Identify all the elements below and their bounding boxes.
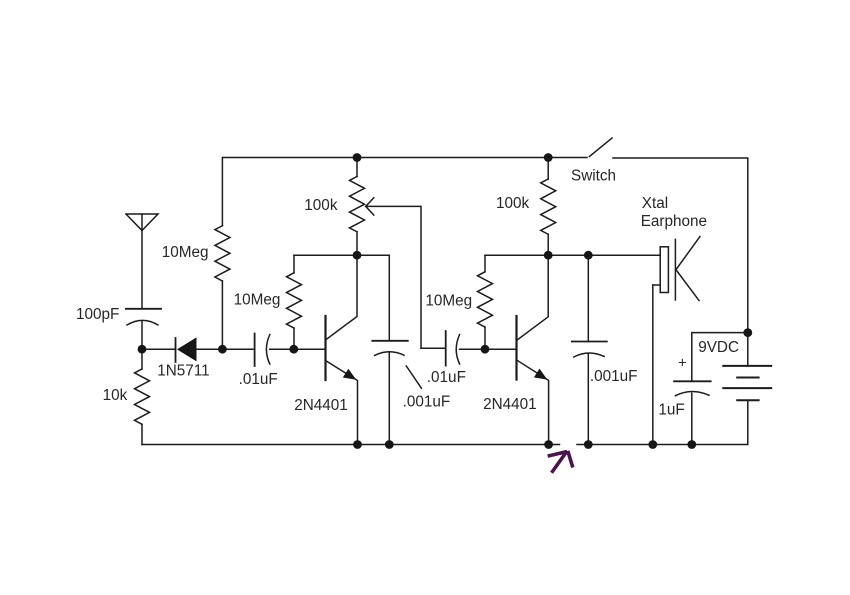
- svg-text:.001uF: .001uF: [403, 394, 451, 411]
- svg-text:100k: 100k: [496, 195, 530, 212]
- svg-text:100pF: 100pF: [76, 306, 119, 323]
- svg-text:Xtal: Xtal: [642, 195, 668, 212]
- svg-text:Switch: Switch: [571, 168, 616, 185]
- svg-text:2N4401: 2N4401: [483, 396, 537, 413]
- svg-text:+: +: [678, 354, 687, 371]
- svg-text:9VDC: 9VDC: [698, 339, 739, 356]
- svg-text:.01uF: .01uF: [427, 369, 466, 386]
- svg-text:.001uF: .001uF: [590, 368, 638, 385]
- svg-text:.01uF: .01uF: [239, 371, 278, 388]
- svg-text:1N5711: 1N5711: [157, 363, 209, 380]
- svg-text:100k: 100k: [304, 197, 338, 214]
- svg-text:2N4401: 2N4401: [294, 397, 348, 414]
- svg-text:10Meg: 10Meg: [234, 291, 281, 308]
- svg-text:Earphone: Earphone: [641, 213, 707, 230]
- svg-text:10Meg: 10Meg: [425, 293, 472, 310]
- svg-text:10k: 10k: [103, 387, 128, 404]
- svg-text:10Meg: 10Meg: [162, 244, 209, 261]
- svg-text:1uF: 1uF: [658, 401, 684, 418]
